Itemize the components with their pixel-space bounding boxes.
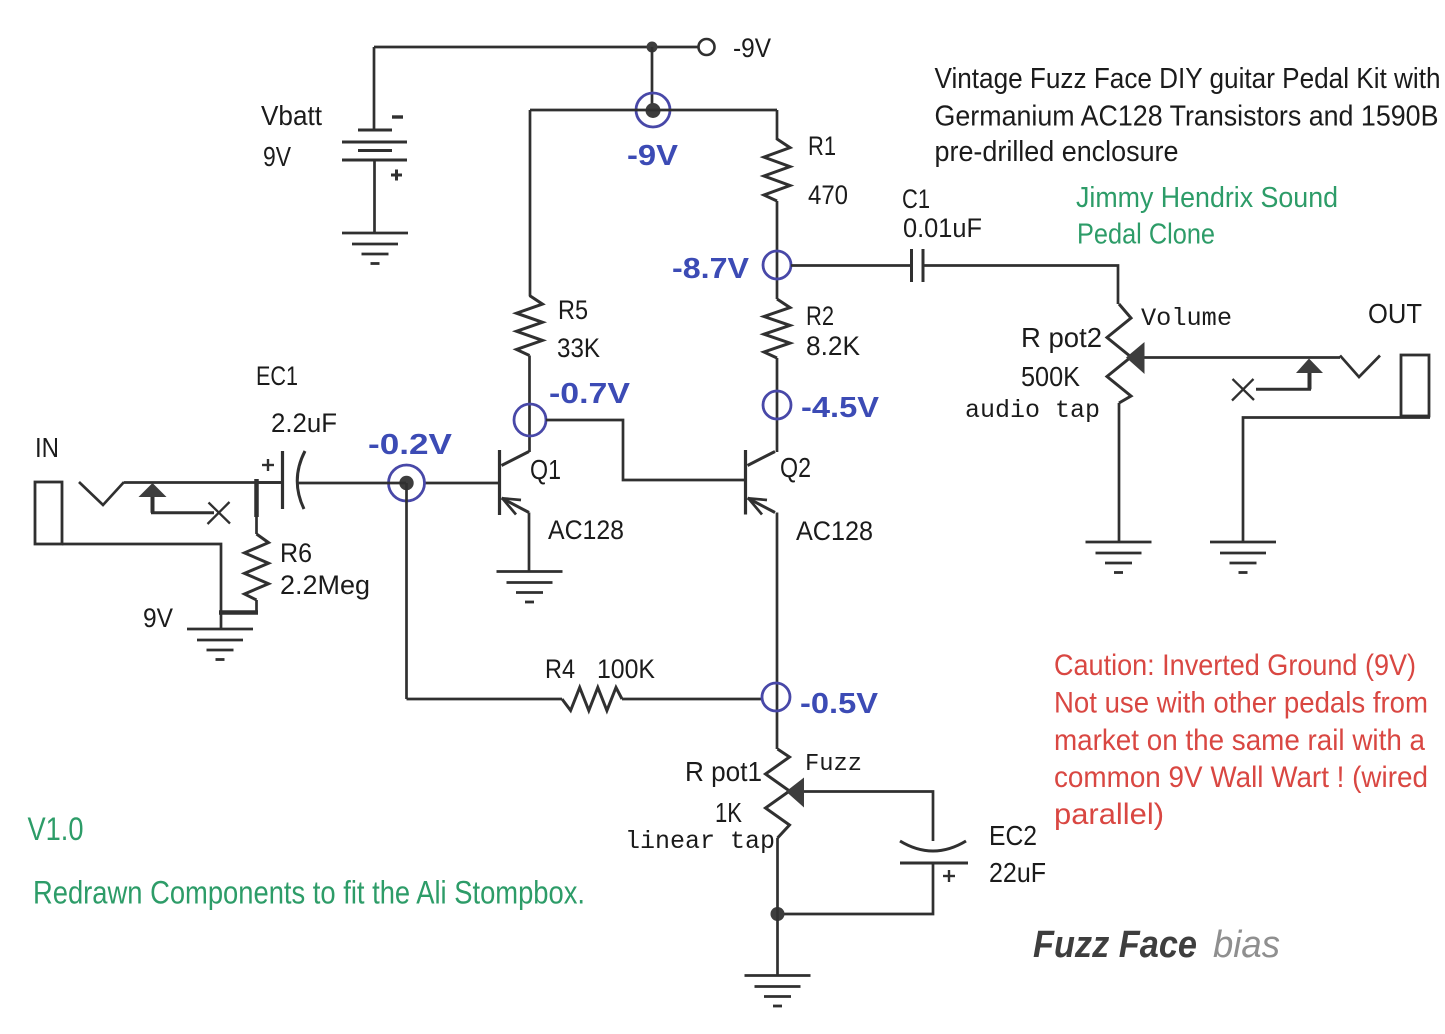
- label Fuzz: [805, 751, 862, 778]
- svg-text:Not use with other pedals from: Not use with other pedals from: [1054, 687, 1428, 720]
- label C1: [902, 184, 930, 214]
- svg-text:bias: bias: [1213, 924, 1280, 966]
- node -9V: [636, 93, 670, 127]
- node -0.2V: [389, 465, 425, 501]
- wire junction to -9V node: [651, 47, 654, 110]
- title bias: [1213, 924, 1280, 966]
- note Jimmy Hendrix Sound: [1076, 182, 1338, 214]
- jack OUT body: [1401, 355, 1429, 416]
- label 2.2uF: [271, 408, 337, 438]
- label audio tap: [965, 396, 1100, 425]
- ground OUT jack: [1210, 542, 1276, 573]
- label R1: [808, 131, 836, 161]
- title line 2: [935, 101, 1439, 133]
- wiper R pot2: [1126, 342, 1340, 374]
- label 500K: [1021, 361, 1080, 392]
- wire Q1 emitter: [528, 513, 531, 572]
- title line 1: [935, 63, 1441, 95]
- label R6: [280, 538, 312, 568]
- wire to R4: [407, 698, 563, 701]
- label R pot2: [1021, 322, 1102, 353]
- label R2: [806, 301, 834, 331]
- ground battery: [342, 233, 408, 264]
- junction pot1 bottom: [771, 907, 785, 921]
- transistor Q1: [500, 450, 530, 515]
- jack OUT tip contact arrow: [1256, 359, 1323, 390]
- svg-text:audio tap: audio tap: [965, 396, 1100, 425]
- svg-text:2.2Meg: 2.2Meg: [280, 570, 370, 600]
- svg-text:-8.7V: -8.7V: [672, 253, 750, 285]
- svg-text:Q1: Q1: [530, 454, 561, 485]
- svg-text:Vbatt: Vbatt: [261, 100, 322, 131]
- svg-text:Fuzz: Fuzz: [805, 751, 862, 778]
- svg-text:R5: R5: [558, 295, 588, 325]
- note Redrawn: [33, 875, 585, 911]
- svg-text:9V: 9V: [143, 603, 173, 633]
- resistor R6: [245, 534, 269, 600]
- wire C1 to pot2: [923, 266, 1118, 305]
- node -4.5V: [763, 391, 791, 419]
- note V1.0: [28, 811, 84, 847]
- resistor R4: [562, 688, 622, 711]
- svg-text:-0.5V: -0.5V: [800, 688, 879, 720]
- label Volume: [1141, 304, 1232, 333]
- jack OUT tip spring: [1340, 356, 1380, 378]
- svg-text:Q2: Q2: [780, 452, 811, 483]
- svg-text:EC1: EC1: [256, 361, 298, 391]
- label AC128 Q2: [796, 516, 873, 546]
- node -0.7V: [514, 404, 546, 436]
- label 2.2Meg: [280, 570, 370, 600]
- wire Q1 collector to Q2 base: [546, 420, 744, 480]
- label Q2: [780, 452, 811, 483]
- ground IN jack: [187, 629, 253, 660]
- svg-text:-0.2V: -0.2V: [368, 429, 453, 461]
- label R5: [558, 295, 588, 325]
- svg-text:0.01uF: 0.01uF: [903, 213, 982, 243]
- svg-text:-9V: -9V: [627, 140, 679, 172]
- svg-text:9V: 9V: [263, 141, 291, 172]
- label -8.7V: [672, 253, 750, 285]
- node -8.7V: [763, 251, 791, 279]
- svg-text:470: 470: [808, 180, 848, 210]
- potentiometer R pot2: [1107, 304, 1131, 403]
- jack IN unused contact X: [208, 502, 231, 524]
- title line 3: [935, 136, 1179, 168]
- svg-text:22uF: 22uF: [989, 857, 1046, 888]
- wire R1 to R2: [776, 201, 779, 299]
- jack OUT unused contact X: [1232, 379, 1254, 401]
- label linear tap: [625, 827, 775, 856]
- label R pot1: [685, 756, 762, 787]
- jack IN body: [35, 482, 62, 544]
- svg-text:EC2: EC2: [989, 820, 1037, 851]
- caution line 5: [1054, 798, 1164, 831]
- battery Vbatt 9V: [342, 47, 407, 233]
- thick bar R6 to sleeve: [219, 610, 258, 615]
- label 0.01uF: [903, 213, 982, 243]
- caution line 2: [1054, 687, 1428, 720]
- wire input: [124, 481, 282, 484]
- wiper R pot1: [786, 778, 933, 842]
- svg-text:Fuzz Face: Fuzz Face: [1033, 924, 1197, 966]
- svg-text:AC128: AC128: [796, 516, 873, 546]
- jack IN tip contact arrow: [139, 483, 215, 513]
- svg-text:Pedal Clone: Pedal Clone: [1077, 219, 1215, 251]
- wire Q2 emitter: [776, 513, 779, 750]
- svg-text:R1: R1: [808, 131, 836, 161]
- svg-text:-4.5V: -4.5V: [801, 392, 880, 424]
- label Q1: [530, 454, 561, 485]
- wire top rail from battery to -9V terminal: [374, 46, 698, 49]
- capacitor EC1: [262, 451, 305, 509]
- wire R4 to -0.5V node: [622, 698, 762, 701]
- label AC128 Q1: [548, 515, 624, 545]
- label 9V battery: [263, 141, 291, 172]
- ground pot2: [1086, 542, 1152, 573]
- wire bar to R6: [255, 517, 258, 534]
- wire R2 to Q2 collector: [776, 358, 779, 452]
- label 9V ground: [143, 603, 173, 633]
- terminal -9V open circle: [699, 39, 715, 55]
- jack IN tip spring: [79, 482, 124, 505]
- label -9V terminal: [733, 33, 771, 63]
- wire rail to R1: [776, 110, 779, 140]
- svg-text:R4: R4: [545, 654, 575, 684]
- label -0.7V: [549, 378, 631, 410]
- label 33K: [557, 333, 600, 363]
- label 8.2K: [806, 331, 860, 361]
- caution line 4: [1054, 761, 1428, 794]
- thick bar input node: [254, 479, 259, 517]
- wire pot1 to ground: [776, 838, 779, 976]
- label 1K: [715, 797, 742, 828]
- label -0.2V: [368, 429, 453, 461]
- label EC1: [256, 361, 298, 391]
- svg-text:Germanium AC128 Transistors an: Germanium AC128 Transistors and 1590B: [935, 101, 1439, 133]
- title Fuzz Face: [1033, 924, 1197, 966]
- wire pot2 to ground: [1118, 403, 1121, 542]
- wire IN sleeve: [62, 544, 221, 629]
- svg-text:AC128: AC128: [548, 515, 624, 545]
- svg-text:1K: 1K: [715, 797, 742, 828]
- svg-text:100K: 100K: [597, 654, 655, 684]
- wire EC1 plate to bar: [258, 481, 282, 484]
- wire EC2 to junction: [777, 863, 933, 914]
- note Pedal Clone: [1077, 219, 1215, 251]
- label -4.5V: [801, 392, 880, 424]
- svg-text:pre-drilled enclosure: pre-drilled enclosure: [935, 136, 1179, 168]
- ground pot1: [745, 976, 811, 1007]
- svg-text:OUT: OUT: [1368, 298, 1422, 329]
- label 470: [808, 180, 848, 210]
- wire R5 to Q1 collector: [528, 356, 531, 453]
- caution line 3: [1054, 724, 1425, 757]
- svg-text:33K: 33K: [557, 333, 600, 363]
- svg-text:R pot1: R pot1: [685, 756, 762, 787]
- junction top rail: [647, 42, 658, 53]
- label IN: [35, 432, 59, 463]
- wire -9V rail: [530, 109, 777, 112]
- svg-text:-0.7V: -0.7V: [549, 378, 631, 410]
- wire Q1 base: [424, 482, 498, 485]
- svg-text:-9V: -9V: [733, 33, 771, 63]
- label OUT: [1368, 298, 1422, 329]
- wire EC1 to node: [297, 482, 406, 485]
- wire node to R5: [529, 110, 532, 296]
- capacitor EC2: [900, 841, 968, 882]
- label 22uF: [989, 857, 1046, 888]
- svg-text:8.2K: 8.2K: [806, 331, 860, 361]
- wire node to C1: [791, 264, 911, 267]
- wire OUT sleeve: [1243, 418, 1430, 543]
- capacitor C1: [912, 249, 924, 282]
- svg-text:2.2uF: 2.2uF: [271, 408, 337, 438]
- svg-text:parallel): parallel): [1054, 798, 1164, 831]
- svg-text:C1: C1: [902, 184, 930, 214]
- svg-text:Vintage Fuzz Face DIY guitar P: Vintage Fuzz Face DIY guitar Pedal Kit w…: [935, 63, 1441, 95]
- svg-text:Caution: Inverted Ground (9V): Caution: Inverted Ground (9V): [1054, 649, 1416, 682]
- wire R6 bottom: [255, 600, 258, 612]
- svg-text:R6: R6: [280, 538, 312, 568]
- svg-text:Redrawn Components to fit the: Redrawn Components to fit the Ali Stompb…: [33, 875, 585, 911]
- svg-text:Jimmy Hendrix Sound: Jimmy Hendrix Sound: [1076, 182, 1338, 214]
- label Vbatt: [261, 100, 322, 131]
- label 100K: [597, 654, 655, 684]
- svg-text:R2: R2: [806, 301, 834, 331]
- label R4: [545, 654, 575, 684]
- wire feedback drop: [405, 483, 408, 699]
- svg-text:IN: IN: [35, 432, 59, 463]
- caution line 1: [1054, 649, 1416, 682]
- potentiometer R pot1: [766, 749, 790, 838]
- label EC2: [989, 820, 1037, 851]
- svg-text:V1.0: V1.0: [28, 811, 84, 847]
- label -9V node: [627, 140, 679, 172]
- transistor Q2: [746, 450, 776, 515]
- svg-text:R pot2: R pot2: [1021, 322, 1102, 353]
- node -0.5V: [762, 683, 790, 711]
- svg-text:market on the same rail with: market on the same rail with a: [1054, 724, 1425, 757]
- ground Q1 emitter: [497, 572, 563, 603]
- svg-text:linear tap: linear tap: [625, 827, 775, 856]
- svg-text:common 9V Wall Wart ! (wired: common 9V Wall Wart ! (wired: [1054, 761, 1428, 794]
- svg-text:Volume: Volume: [1141, 304, 1232, 333]
- resistor R1: [764, 139, 790, 201]
- label -0.5V: [800, 688, 879, 720]
- resistor R5: [517, 296, 543, 356]
- resistor R2: [764, 299, 790, 358]
- svg-text:500K: 500K: [1021, 361, 1080, 392]
